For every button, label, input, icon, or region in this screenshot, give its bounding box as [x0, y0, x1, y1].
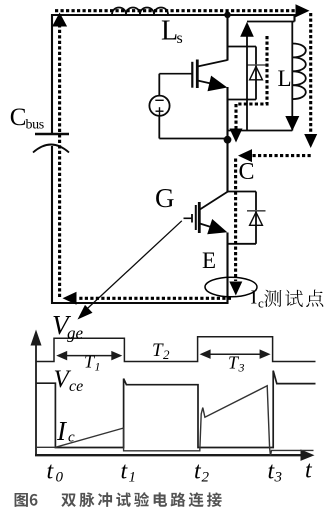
svg-text:C: C: [239, 159, 255, 185]
svg-text:bus: bus: [26, 118, 44, 133]
svg-text:ce: ce: [69, 378, 83, 395]
svg-text:3: 3: [274, 470, 283, 486]
svg-text:3: 3: [238, 361, 245, 375]
svg-text:G: G: [155, 183, 175, 213]
svg-text:2: 2: [202, 470, 210, 486]
svg-text:c: c: [258, 296, 264, 311]
svg-text:c: c: [68, 430, 75, 446]
svg-text:s: s: [177, 30, 183, 47]
svg-text:1: 1: [95, 360, 101, 374]
svg-text:0: 0: [56, 470, 64, 486]
svg-text:I: I: [251, 287, 258, 309]
svg-text:2: 2: [163, 347, 170, 362]
svg-text:C: C: [10, 104, 27, 131]
svg-text:E: E: [202, 248, 216, 273]
svg-text:L: L: [278, 66, 292, 91]
svg-text:ge: ge: [67, 324, 84, 343]
svg-text:1: 1: [129, 470, 137, 486]
